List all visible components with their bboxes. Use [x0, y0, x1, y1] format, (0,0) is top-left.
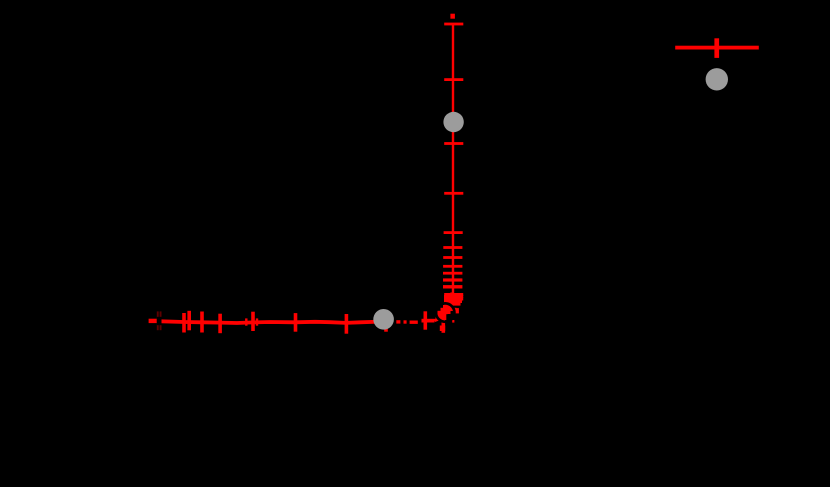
- yerr bar x=202: [200, 312, 204, 333]
- vbranch xerr bar y=232.6: [444, 231, 463, 234]
- vbranch xerr bar y=257.5: [443, 256, 462, 259]
- vbranch xerr bar y=24: [444, 23, 463, 26]
- yerr cap tick x=246: [245, 318, 247, 325]
- vbranch xerr bar y=280: [443, 278, 462, 281]
- black gap at x=159 crossing: [157, 317, 162, 325]
- vbranch xerr bar y=143.5: [444, 142, 463, 145]
- bend xerr bar y=306.6: [443, 305, 453, 308]
- bend xerr bar y=294.4: [444, 293, 463, 296]
- vbranch xerr bar y=286.8: [443, 285, 462, 288]
- xerr dash 1: [396, 320, 400, 323]
- bend xerr bar y=298.9: [444, 297, 463, 300]
- yerr bar x=220: [218, 314, 222, 334]
- gray marker on vertical branch: [443, 112, 463, 132]
- legend gray marker: [706, 68, 728, 90]
- xerr dash 4: [422, 319, 435, 323]
- vertical branch line: [452, 23, 454, 294]
- yerr bar x=159 left dark line: [157, 311, 159, 330]
- curve left dash segment: [149, 319, 158, 323]
- vbranch xerr bar y=79.6: [444, 78, 463, 81]
- curve bend line: [435, 293, 453, 321]
- yerr bar x=443 bottom tail: [440, 326, 445, 332]
- black knee circle marker: [436, 303, 454, 321]
- yerr bar x=346: [345, 314, 349, 334]
- bend xerr bar y=309.4: [441, 308, 457, 311]
- bend xerr bar y=312.4: [438, 311, 451, 314]
- vbranch xerr bar y=247.5: [443, 246, 462, 249]
- yerr bar x=189: [187, 311, 191, 331]
- yerr bar x=386: [384, 315, 388, 332]
- vbranch xerr bar y=193.3: [444, 192, 463, 195]
- gray marker on flat branch: [373, 309, 394, 330]
- bend xerr bar y=304.0: [444, 302, 461, 305]
- bend xerr bar y=315.4: [437, 314, 448, 317]
- yerr cap tick x=257: [256, 318, 258, 325]
- yerr bar x=446: [444, 305, 448, 320]
- curve main horizontal line: [157, 321, 380, 323]
- yerr bar x=184: [182, 313, 186, 333]
- xerr dash 3: [410, 321, 418, 324]
- vbranch xerr bar y=273.2: [443, 272, 462, 275]
- top point marker: [450, 14, 455, 19]
- legend errorbar tick: [714, 38, 719, 58]
- legend errorbar line: [675, 46, 759, 50]
- bend xerr bar y=296.4: [444, 295, 463, 298]
- yerr bar x=425: [424, 311, 428, 329]
- xerr dash 2: [404, 320, 407, 323]
- yerr bar x=159 right dark line: [160, 311, 162, 330]
- vbranch xerr bar y=266.3: [443, 265, 462, 268]
- bend xerr bar y=301.4: [444, 300, 462, 303]
- yerr bar x=253: [251, 312, 255, 331]
- bend xerr dot right y=315.4: [452, 320, 454, 323]
- yerr bar x=295: [294, 313, 298, 332]
- bend xerr bar right y=310: [454, 308, 459, 313]
- yerr bar x=443: [442, 310, 446, 333]
- bend xerr bar y=318.3: [436, 317, 446, 320]
- black inner wedge: [446, 314, 451, 320]
